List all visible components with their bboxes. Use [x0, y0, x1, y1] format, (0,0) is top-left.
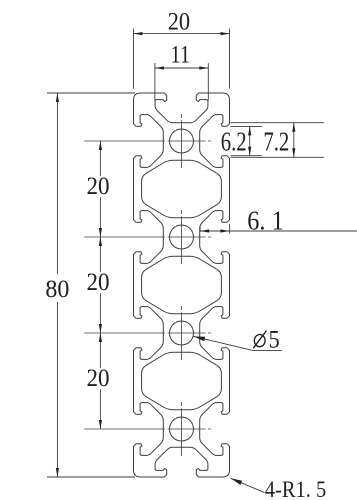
- label 20 chain 3: [87, 365, 110, 392]
- dim 80 ext bottom: [47, 476, 135, 478]
- octagon cavity 3: [142, 352, 222, 410]
- dim 11 ext left: [154, 63, 156, 101]
- left slot cavity 2: [134, 211, 164, 264]
- label 20 top: [168, 8, 190, 35]
- arrows dim 80: [56, 93, 59, 102]
- dim 20 chain line: [99, 141, 101, 176]
- wire left surface segment: [133, 446, 135, 470]
- leader 4-R1.5: [231, 478, 265, 492]
- dim 7.2 arrow line: [293, 123, 295, 158]
- arrow leader dia5: [194, 336, 206, 341]
- centerline hole 1 horizontal: [84, 140, 211, 142]
- arrows dim 7.2: [292, 123, 295, 132]
- bottom slot cavity: [155, 447, 208, 477]
- corner fillet top-right R1.5: [223, 93, 230, 100]
- wire bottom surface left: [141, 476, 165, 478]
- svg-text:7.2: 7.2: [263, 128, 289, 157]
- label 20 chain 2: [87, 269, 110, 296]
- right slot cavity 3: [200, 307, 230, 360]
- centerline hole 2 vertical: [181, 210, 183, 264]
- svg-text:6.2: 6.2: [221, 128, 247, 157]
- label 6.1: [247, 205, 283, 235]
- wire right surface segment: [229, 100, 231, 124]
- centerline hole 3 horizontal: [84, 332, 211, 334]
- dim 80 line: [56, 93, 58, 274]
- wire left surface segment: [133, 100, 135, 124]
- wire top surface left: [141, 92, 165, 94]
- right slot cavity 1: [200, 115, 230, 168]
- wire left surface segment: [133, 158, 135, 219]
- dim 11 line: [155, 67, 208, 69]
- dim 80 ext top: [47, 92, 135, 94]
- label 4-R1.5: [265, 477, 327, 500]
- wire right surface segment: [229, 350, 231, 411]
- wire right surface segment: [229, 254, 231, 315]
- left slot cavity 1: [134, 115, 164, 168]
- dim 6.1 line: [200, 230, 357, 232]
- svg-text:6. 1: 6. 1: [247, 205, 283, 235]
- top slot cavity: [155, 93, 208, 123]
- svg-text:20: 20: [168, 8, 190, 35]
- corner fillet bottom-right R1.5: [223, 470, 230, 477]
- label 80: [45, 276, 69, 304]
- svg-text:5: 5: [269, 326, 280, 353]
- centerline hole 3 vertical: [181, 306, 183, 360]
- label 11: [170, 41, 190, 68]
- wire right surface segment: [229, 446, 231, 470]
- svg-text:20: 20: [87, 365, 110, 392]
- dim 6.1 ext at surface: [229, 224, 231, 234]
- svg-text:20: 20: [87, 173, 110, 200]
- hole 2 dia 5: [170, 225, 194, 249]
- arrows dim 20 top: [134, 32, 143, 35]
- label 20 chain 1: [87, 173, 110, 200]
- octagon cavity 2: [142, 256, 222, 314]
- hole 4 dia 5: [170, 417, 194, 441]
- arrows dim 6.2: [248, 126, 251, 135]
- arrows dim 11: [155, 66, 164, 69]
- svg-text:80: 80: [45, 276, 69, 304]
- wire right surface segment: [229, 158, 231, 219]
- svg-text:11: 11: [170, 41, 190, 68]
- corner fillet bottom-left R1.5: [134, 470, 141, 477]
- leader dia 5: [194, 336, 283, 350]
- dim 20 top line: [134, 33, 230, 35]
- centerline hole 4 horizontal: [84, 428, 211, 430]
- label 6.2: [221, 128, 247, 157]
- arrows dim 6.1: [200, 229, 209, 232]
- dim 20 top ext right: [229, 29, 231, 89]
- symbol diameter phi: [253, 331, 266, 349]
- wire left surface segment: [133, 350, 135, 411]
- dim 6.1 ext at slot bottom: [199, 226, 201, 233]
- centerline hole 1 vertical: [181, 114, 183, 168]
- dim 6.2 arrow line: [249, 126, 251, 155]
- hole 1 dia 5: [170, 129, 194, 153]
- svg-text:4-R1. 5: 4-R1. 5: [265, 477, 327, 500]
- arrows dim 20 chain: [99, 141, 102, 150]
- dim 20 top ext left: [133, 29, 135, 89]
- dim 6.2 ext lines: [231, 125, 263, 127]
- centerline hole 2 horizontal: [84, 236, 211, 238]
- dim 7.2 ext lines: [231, 122, 325, 124]
- svg-text:20: 20: [87, 269, 110, 296]
- wire top surface right: [199, 92, 223, 94]
- left slot cavity 3: [134, 307, 164, 360]
- arrow leader 4-R1.5: [231, 478, 243, 485]
- corner fillet top-left R1.5: [134, 93, 141, 100]
- centerline hole 4 vertical: [181, 402, 183, 456]
- right slot cavity 2: [200, 211, 230, 264]
- wire bottom surface right: [199, 476, 223, 478]
- label dia 5: [269, 326, 280, 353]
- right slot cavity 4: [200, 403, 230, 456]
- octagon cavity 1: [142, 160, 222, 218]
- dim 11 ext right: [207, 63, 209, 101]
- wire left surface segment: [133, 254, 135, 315]
- hole 3 dia 5: [170, 321, 194, 345]
- left slot cavity 4: [134, 403, 164, 456]
- label 7.2: [263, 128, 289, 157]
